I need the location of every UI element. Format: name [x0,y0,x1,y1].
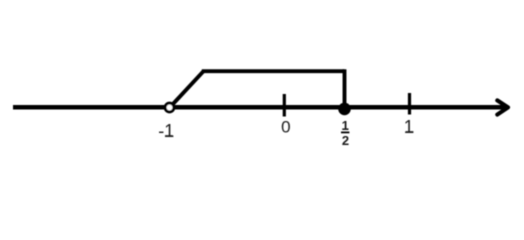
closed dot at 1/2 [338,103,351,116]
svg-text:0: 0 [281,117,290,136]
label 1/2 numerator [342,118,349,133]
number line axis [13,105,505,110]
label -1 [158,121,174,141]
tick 1 [408,93,411,115]
segment horizontal [202,69,345,73]
label 1/2 fraction bar [341,131,349,133]
open circle at -1 [165,103,174,112]
segment diagonal [173,71,204,104]
svg-text:1: 1 [342,118,349,133]
segment vertical drop [343,69,347,105]
svg-text:-1: -1 [158,121,174,141]
tick 0 [283,94,286,117]
arrowhead [497,100,508,114]
svg-text:2: 2 [342,133,349,148]
svg-text:1: 1 [404,117,414,137]
label 1 [404,117,414,137]
